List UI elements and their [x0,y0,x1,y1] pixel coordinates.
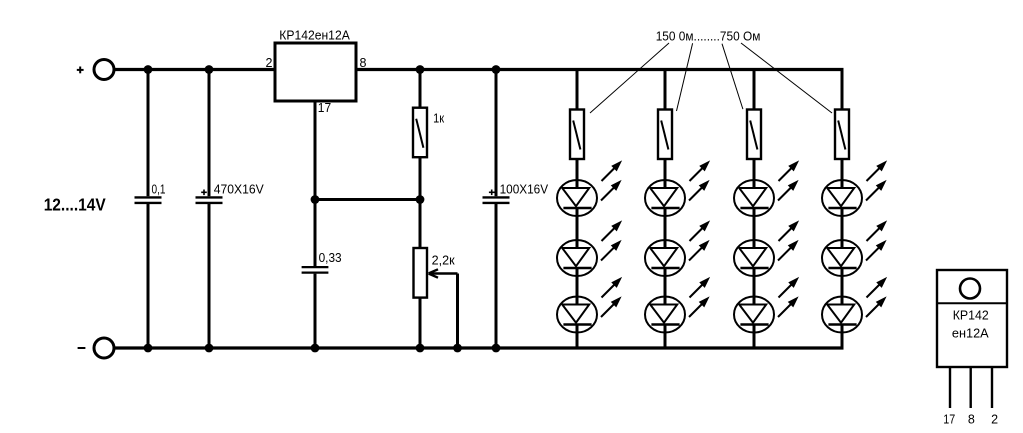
svg-text:2: 2 [266,56,273,70]
svg-text:12....14V: 12....14V [44,195,106,215]
svg-text:470X16V: 470X16V [214,182,265,196]
svg-text:0,1: 0,1 [152,182,166,196]
svg-text:100X16V: 100X16V [500,183,549,197]
svg-text:2: 2 [991,413,998,427]
svg-text:2,2к: 2,2к [432,253,456,267]
svg-text:КР142: КР142 [953,309,989,323]
svg-text:1к: 1к [433,111,444,125]
svg-text:17: 17 [943,413,955,427]
svg-text:8: 8 [360,56,367,70]
svg-text:150 0м........750 Ом: 150 0м........750 Ом [656,29,761,43]
svg-text:ен12А: ен12А [952,327,989,341]
svg-text:8: 8 [968,413,975,427]
svg-text:17: 17 [318,101,331,115]
svg-text:0,33: 0,33 [319,251,342,265]
svg-text:КР142ен12А: КР142ен12А [279,29,350,43]
